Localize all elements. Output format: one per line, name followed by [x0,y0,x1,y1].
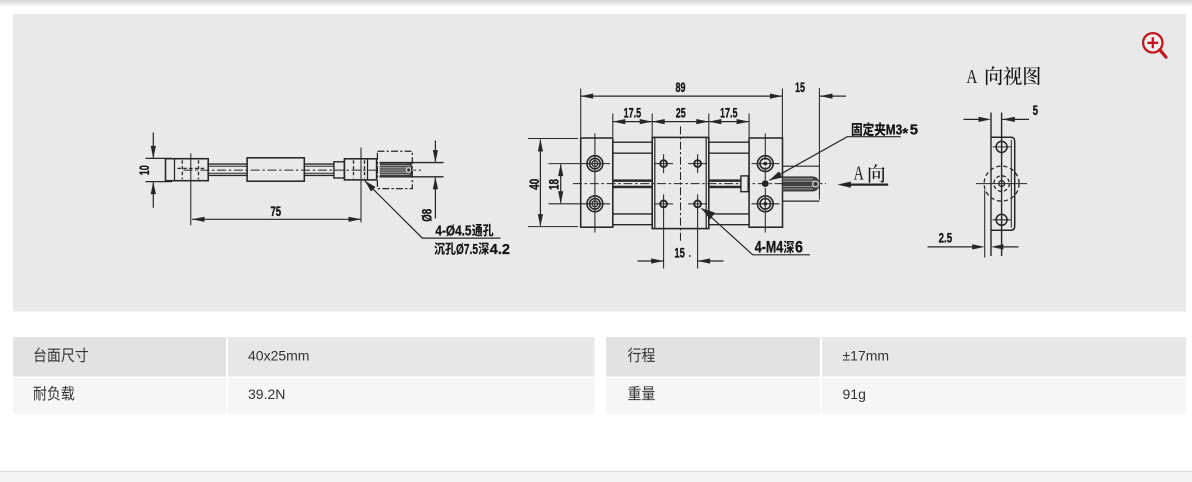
plate hole at 765.3,203.8 [757,196,773,212]
cylinder body [247,158,304,181]
M4 tapped hole at 663.6,163.6 [660,160,667,167]
M4 tapped hole at 697.6,203.9 [694,201,701,208]
svg-text:A: A [854,164,864,185]
svg-text:39.2N: 39.2N [248,386,285,402]
A direction arrow [849,184,888,186]
piston rod left segment [208,164,247,175]
bottom hole [996,214,1007,225]
svg-text:5: 5 [910,121,918,138]
dim 15 top (outside arrows) [820,95,846,97]
knurled coupling phantom outline [377,151,412,188]
table text: platform size [34,347,45,362]
dim line 17.5/25/17.5 [613,121,749,123]
dim 18 [560,165,562,203]
leader 4-M4 [702,208,811,255]
svg-text:17.5: 17.5 [720,106,738,121]
svg-text:25: 25 [676,106,686,121]
dim 75 [192,218,361,220]
dim 5 [964,118,1030,120]
label fixing clamp M3*5 [852,123,862,136]
table text: load [34,386,47,401]
left end plate [581,138,613,227]
svg-text:*: * [902,125,908,142]
svg-text:6: 6 [795,237,803,256]
plate hole at 594.9,203.8 [587,196,603,212]
svg-text:17.5: 17.5 [624,106,642,121]
svg-text:4.2: 4.2 [490,241,510,258]
bracket plate outline [991,137,1015,230]
svg-text:A: A [966,67,977,88]
spec table row 1 [13,337,226,377]
bottom strip [0,471,1192,472]
main centerline [573,183,826,185]
M4 tapped hole at 663.6,203.9 [660,201,667,208]
knurl hatch [380,163,411,176]
dim 15 bottom outside arrows [638,260,724,262]
dim 40 [528,139,578,227]
dim 89 extension lines [581,89,783,139]
knurl assembly right [783,166,820,201]
rod bands [613,179,741,188]
drawing panel [13,14,1186,312]
svg-text:75: 75 [270,204,281,219]
main horizontal centerline [184,169,422,171]
clamp dot [762,180,769,187]
svg-text:15: 15 [674,246,685,261]
tube segments [613,142,749,225]
table vertical centerline [680,126,682,243]
plate hole centerlines [595,134,765,233]
dim 2.5 [984,190,986,258]
dim 10 arrow lines [152,133,154,208]
bracket plate inner edge [1010,140,1012,228]
svg-text:40: 40 [527,178,542,189]
label counterbore line2 [434,242,445,255]
top hole [996,141,1007,152]
extension line for dim 75 right [360,148,362,223]
plate hole at 594.9,163.6 [587,156,603,172]
center boss dashed circles [984,166,1019,201]
dim 10 arrowheads [151,146,156,194]
side plate long lines [991,113,1002,257]
right end plate [749,138,782,227]
zoom-in magnifier icon [1143,33,1166,57]
table text: stroke [628,348,641,363]
piston rod right segment [304,164,334,175]
svg-text:5: 5 [1033,103,1039,118]
coupling block [741,176,748,192]
dim 15 bottom extension lines [664,212,698,269]
svg-text:40x25mm: 40x25mm [248,348,309,364]
leader fixing clamp [770,137,901,181]
M4 tapped hole at 697.6,163.6 [694,160,701,167]
svg-text:2.5: 2.5 [939,231,953,246]
svg-text:±17mm: ±17mm [843,348,890,364]
svg-text:M3: M3 [886,121,903,138]
right end block [344,159,376,180]
svg-text:4-M4: 4-M4 [755,237,784,256]
left side view: dim 10 extension lines [146,158,173,181]
moving table [652,137,709,228]
svg-text:10: 10 [137,165,152,175]
svg-text:89: 89 [676,80,686,95]
dims 17.5 / 25 / 17.5 extension lines [613,114,749,138]
extension line knurl end [818,88,820,200]
collar [334,162,345,178]
svg-text:18: 18 [547,179,562,190]
dim o8 [434,141,436,219]
table text: weight [628,386,640,400]
svg-text:91g: 91g [843,386,866,402]
hidden hole dashed lines in left block [178,160,205,179]
dim 89 line [581,95,783,97]
plate hole at 765.3,163.6 [757,156,773,172]
block vertical centerline [190,153,192,225]
top shadow [0,0,1192,7]
left view table block (end plate) [166,159,209,181]
svg-text:Ø8: Ø8 [420,209,435,222]
leader line for counterbore note [365,181,501,238]
svg-text:4-Ø4.5: 4-Ø4.5 [435,223,471,240]
svg-text:Ø7.5: Ø7.5 [456,241,478,258]
knurled rod with o8 extension lines [380,163,444,177]
svg-text:15: 15 [795,80,805,95]
spec table row 2 [13,378,226,414]
